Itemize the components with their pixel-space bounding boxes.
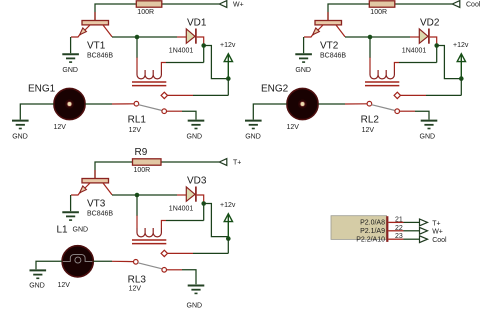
wire pole to +12v: [401, 79, 462, 96]
svg-text:100R: 100R: [370, 9, 387, 16]
relay contact RL1 throw: [162, 109, 167, 114]
svg-text:VD2: VD2: [420, 17, 440, 28]
relay contact RL3 lever: [138, 263, 162, 269]
wire lamp to ground: [36, 261, 62, 269]
resistor 100R (VT2 base): [369, 1, 395, 16]
svg-text:Cool: Cool: [466, 2, 481, 9]
wire contact to ground: [400, 111, 430, 119]
svg-text:+12v: +12v: [220, 202, 236, 209]
relay coil RL1: [132, 37, 166, 86]
svg-text:W+: W+: [432, 229, 443, 236]
power +12v: [220, 42, 236, 79]
svg-text:VT3: VT3: [87, 199, 106, 210]
transistor VT3: [71, 179, 113, 218]
motor ENG1: [28, 84, 85, 131]
svg-text:GND: GND: [187, 133, 203, 140]
diode VD1: [169, 17, 207, 54]
node collector-coil junction: [368, 35, 373, 40]
svg-text:12V: 12V: [129, 127, 142, 134]
svg-text:GND: GND: [62, 67, 78, 74]
relay coil RL3: [132, 195, 166, 244]
svg-text:P2.0/A8: P2.0/A8: [360, 220, 385, 227]
pin 21 (P2.0/A8): [388, 216, 403, 223]
relay coil RL2: [365, 37, 399, 86]
terminal T+ (to pin 21): [420, 219, 441, 227]
resistor 100R (VT1 base): [136, 1, 162, 16]
svg-text:12V: 12V: [287, 124, 300, 131]
ground (contact RL3): [187, 286, 205, 310]
node power junction: [226, 236, 231, 241]
svg-text:GND: GND: [187, 303, 203, 310]
relay RL1 label: [128, 115, 147, 134]
svg-text:W+: W+: [233, 2, 244, 9]
wire resistor to terminal: [395, 3, 453, 5]
svg-text:L1: L1: [57, 224, 69, 235]
svg-text:23: 23: [395, 233, 403, 240]
relay contact RL2 lever: [372, 105, 396, 111]
svg-text:GND: GND: [295, 67, 311, 74]
motor ENG2: [261, 84, 318, 131]
wire emitter to ground: [303, 37, 305, 53]
relay RL2 label: [361, 115, 380, 134]
wire collector to diode anode: [345, 36, 419, 38]
svg-text:1N4001: 1N4001: [402, 48, 427, 55]
svg-text:VD3: VD3: [187, 175, 207, 186]
relay RL3 label: [128, 275, 147, 293]
svg-text:T+: T+: [233, 160, 241, 167]
svg-text:VT1: VT1: [87, 41, 106, 52]
wire contact to ground: [167, 111, 197, 119]
svg-text:RL1: RL1: [128, 115, 147, 126]
svg-text:T+: T+: [432, 220, 440, 227]
svg-text:Cool: Cool: [432, 237, 447, 244]
wire pole to +12v: [168, 79, 229, 96]
relay contact RL1 lever: [139, 105, 163, 111]
wire emitter to ground: [70, 37, 72, 53]
transistor VT2: [304, 21, 346, 60]
relay contact RL2 throw: [395, 109, 400, 114]
node collector-coil junction: [135, 35, 140, 40]
pin 22 (P2.1/A9): [388, 225, 403, 232]
relay contact RL2 pivot: [367, 101, 372, 106]
wire junction to power node: [437, 46, 462, 79]
svg-text:ENG2: ENG2: [261, 84, 289, 95]
svg-text:12V: 12V: [362, 127, 375, 134]
wire resistor to terminal: [162, 3, 220, 5]
svg-text:BC846B: BC846B: [87, 53, 113, 60]
wire pin 23: [404, 238, 420, 240]
terminal Cool (to pin 23): [420, 236, 448, 244]
wire junction to power node: [204, 204, 229, 237]
svg-text:GND: GND: [29, 283, 45, 290]
ground (motor ENG2): [245, 121, 262, 141]
svg-text:GND: GND: [420, 133, 436, 140]
svg-text:P2.2/A10: P2.2/A10: [356, 237, 385, 244]
relay contact RL3 throw: [162, 268, 167, 273]
power +12v: [453, 42, 469, 79]
diode VD3: [169, 175, 207, 212]
svg-text:+12v: +12v: [453, 42, 469, 49]
ground (lamp L1): [29, 270, 46, 289]
relay contact RL1 pivot: [134, 101, 139, 106]
node power junction: [459, 76, 464, 81]
svg-text:1N4001: 1N4001: [169, 206, 194, 213]
svg-text:RL3: RL3: [128, 275, 147, 286]
svg-text:GND: GND: [12, 133, 28, 140]
svg-text:BC846B: BC846B: [320, 53, 346, 60]
svg-text:100R: 100R: [134, 167, 151, 174]
svg-text:12V: 12V: [58, 282, 71, 289]
wire lamp to contact: [93, 260, 133, 262]
wire emitter to ground: [70, 195, 72, 211]
lamp L1 label: [57, 224, 69, 235]
svg-text:12V: 12V: [129, 286, 142, 293]
node diode-cathode junction: [434, 43, 439, 48]
resistor R9 label: [135, 147, 148, 158]
svg-text:VD1: VD1: [187, 17, 207, 28]
wire pole to +12v: [168, 239, 229, 254]
ground (emitter): [62, 212, 88, 233]
wire diode cathode: [197, 195, 204, 202]
diode VD2: [402, 17, 440, 54]
node power junction: [226, 76, 231, 81]
terminal W+: [219, 1, 243, 9]
wire motor to contact: [318, 103, 367, 105]
wire pin 21: [404, 221, 420, 223]
wire diode cathode: [430, 37, 437, 44]
svg-text:100R: 100R: [137, 9, 154, 16]
resistor 100R (VT3 base): [133, 159, 162, 174]
wire diode cathode: [197, 37, 204, 44]
connector P2 body: [331, 216, 387, 244]
relay contact RL3 pole: [161, 250, 167, 256]
svg-text:12V: 12V: [54, 124, 67, 131]
svg-text:21: 21: [395, 216, 403, 223]
wire coil to +12v node: [399, 46, 437, 63]
wire motor to ground: [253, 104, 286, 120]
terminal T+: [219, 159, 241, 167]
wire contact to ground: [167, 270, 197, 285]
svg-text:ENG1: ENG1: [28, 84, 56, 95]
svg-text:VT2: VT2: [320, 41, 339, 52]
wire junction to power node: [204, 46, 229, 79]
ground (contact RL2): [420, 121, 438, 141]
wire collector to diode anode: [112, 36, 186, 38]
svg-text:BC846B: BC846B: [87, 211, 113, 218]
node collector-coil junction: [135, 193, 140, 198]
transistor VT1: [71, 21, 113, 60]
wire coil to +12v node: [166, 46, 204, 63]
wire base rail: [328, 4, 369, 21]
relay contact RL3 pivot: [134, 260, 139, 265]
wire base rail: [95, 4, 136, 21]
terminal Cool: [452, 1, 481, 9]
node diode-cathode junction: [201, 201, 206, 206]
power +12v: [220, 202, 236, 239]
terminal W+ (to pin 22): [420, 227, 443, 235]
ground (motor ENG1): [12, 121, 29, 141]
ground (contact RL1): [187, 121, 205, 141]
lamp L1: [58, 246, 94, 289]
pin 23 (P2.2/A10): [388, 233, 403, 240]
wire collector to diode anode: [112, 194, 186, 196]
svg-text:22: 22: [395, 225, 403, 232]
svg-text:RL2: RL2: [361, 115, 380, 126]
wire pin 22: [404, 230, 420, 232]
relay contact RL1 pole: [161, 92, 167, 98]
relay contact RL2 pole: [394, 92, 400, 98]
ground (emitter): [295, 54, 312, 74]
ground (emitter): [62, 54, 79, 74]
svg-text:P2.1/A9: P2.1/A9: [360, 228, 385, 235]
svg-text:R9: R9: [135, 147, 148, 158]
wire resistor to terminal: [161, 161, 219, 163]
svg-text:GND: GND: [73, 226, 89, 233]
node diode-cathode junction: [201, 43, 206, 48]
svg-text:+12v: +12v: [220, 42, 236, 49]
svg-text:GND: GND: [245, 133, 261, 140]
wire base rail: [95, 162, 133, 179]
wire coil to +12v node: [166, 204, 204, 221]
wire motor to ground: [20, 104, 54, 120]
svg-text:1N4001: 1N4001: [169, 48, 194, 55]
wire motor to contact: [85, 103, 134, 105]
